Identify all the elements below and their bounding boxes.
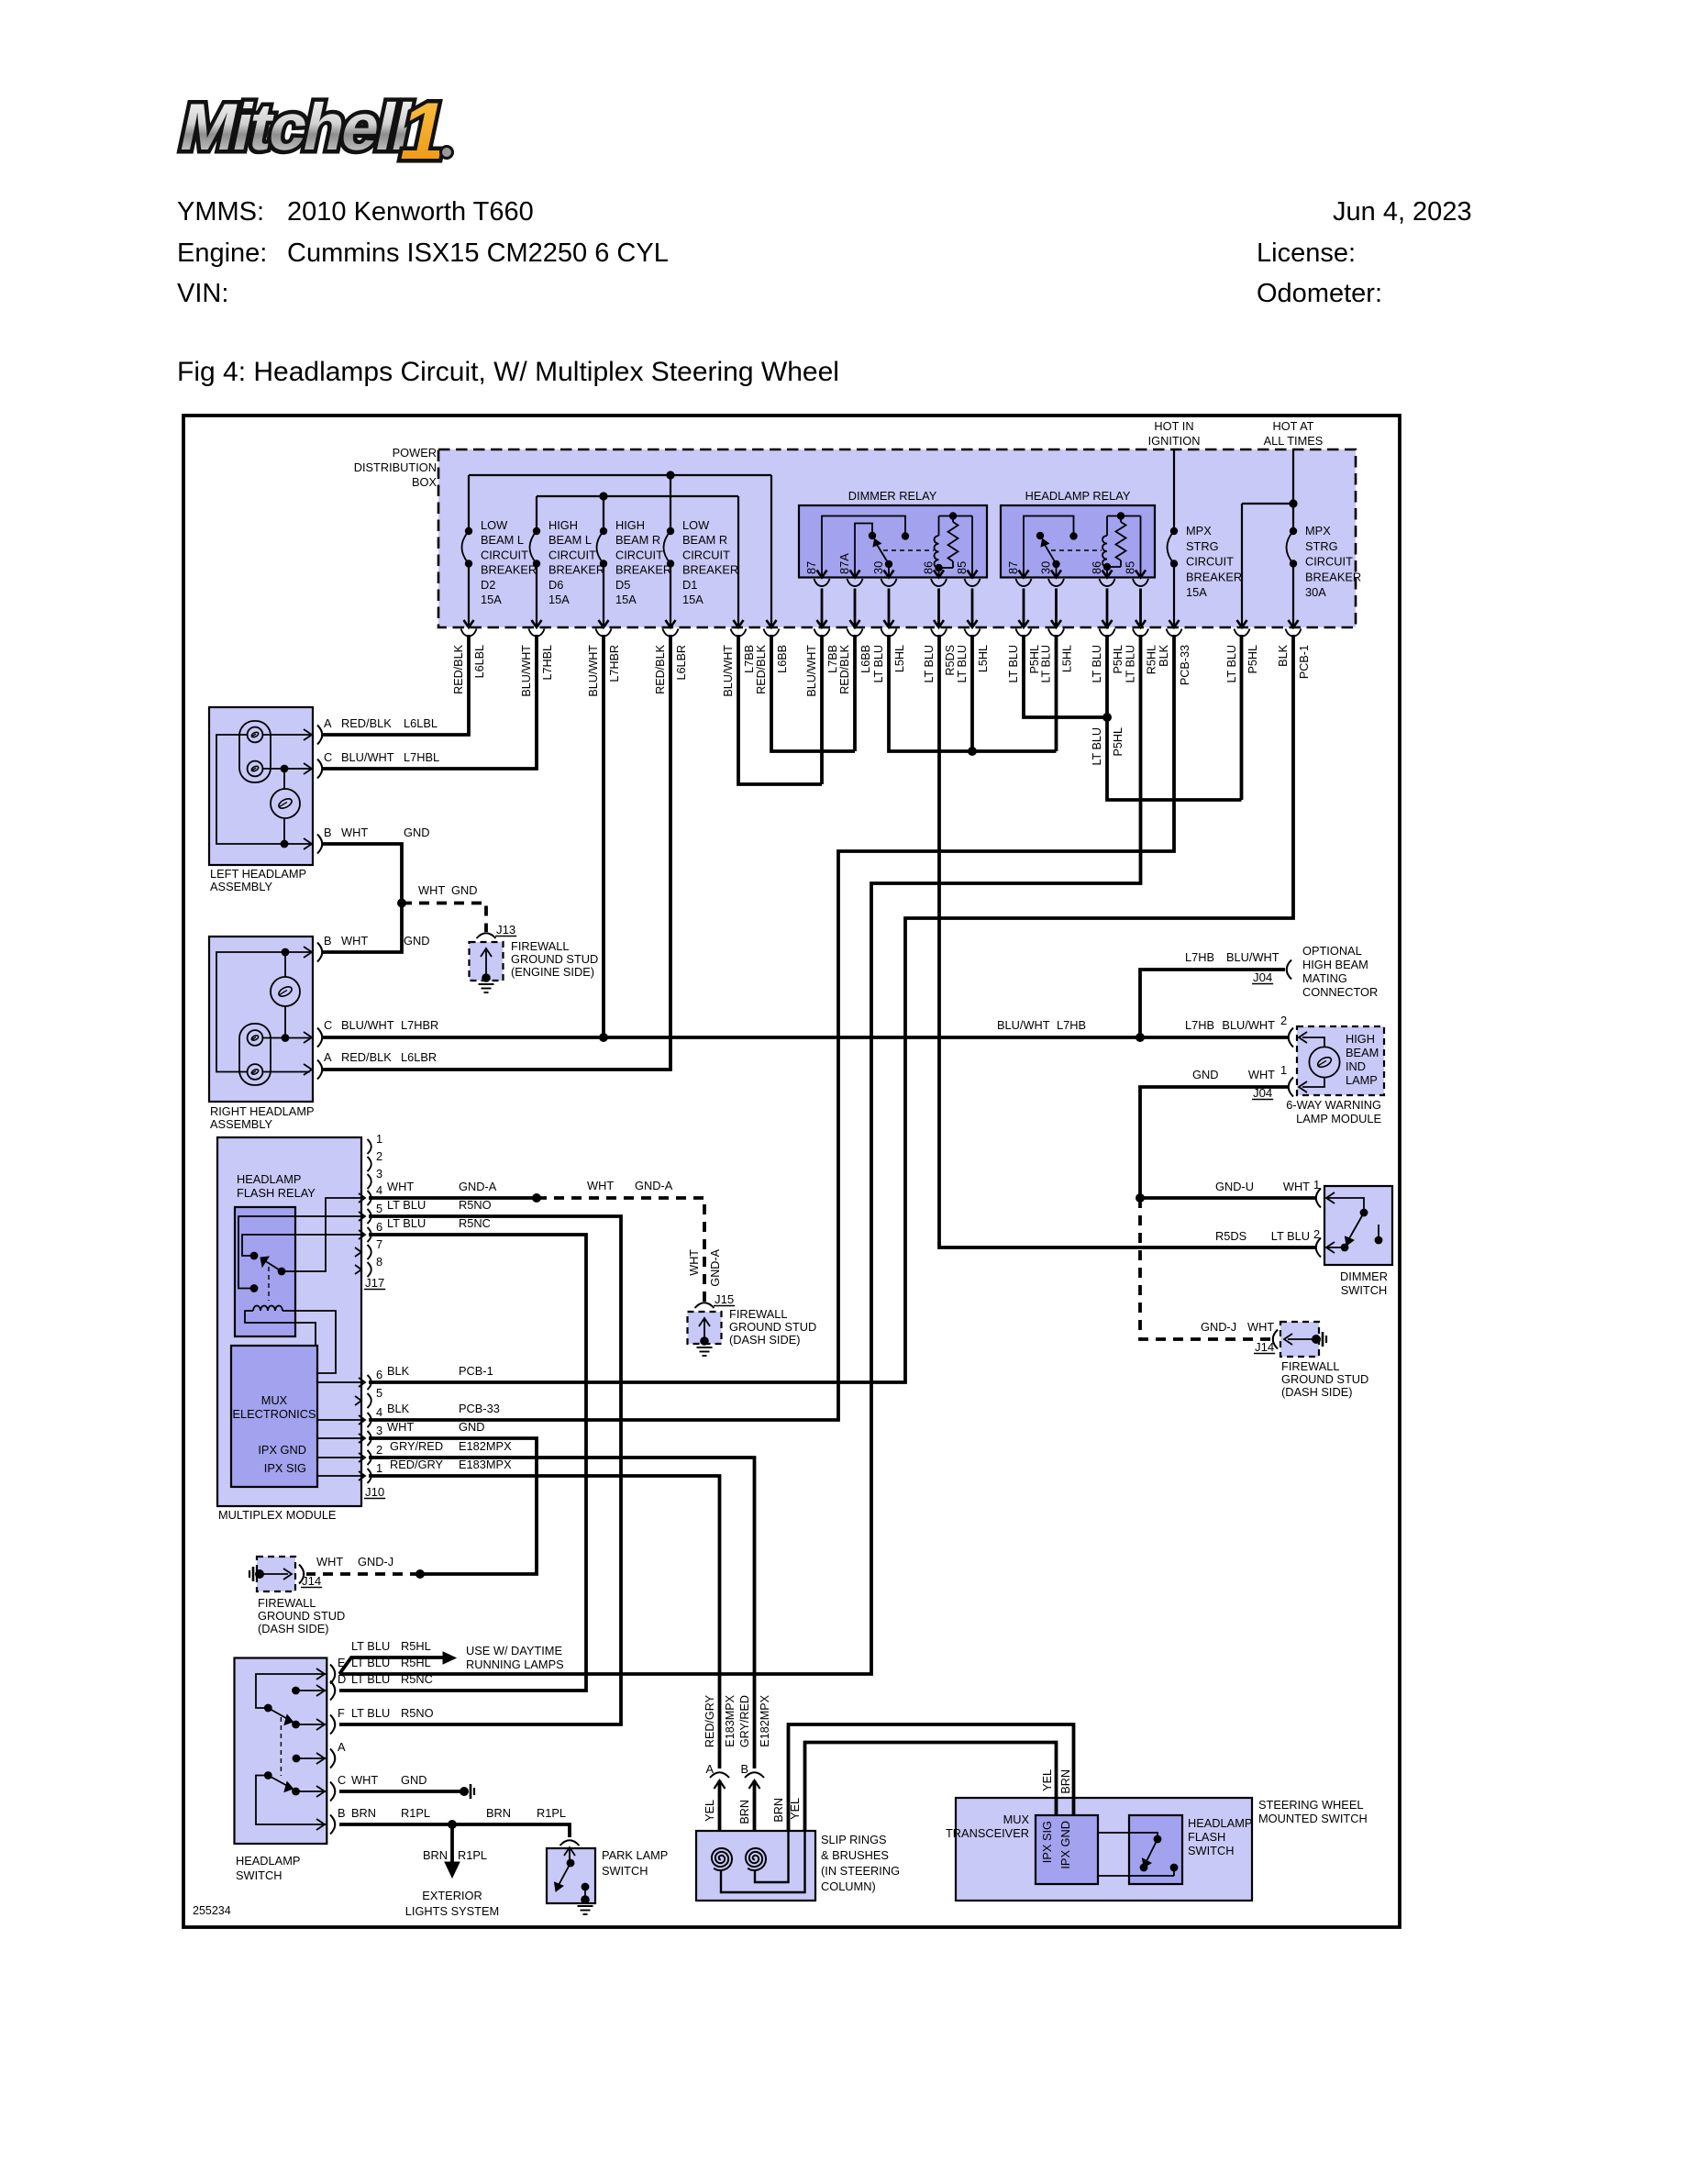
flash relay lever — [278, 1268, 286, 1276]
svg-text:TRANSCEIVER: TRANSCEIVER — [946, 1826, 1029, 1840]
svg-text:D: D — [338, 1672, 346, 1686]
svg-text:LT BLU: LT BLU — [872, 645, 885, 683]
svg-text:FIREWALL: FIREWALL — [729, 1307, 788, 1321]
wire WHT GND (headlamps B to J13) — [323, 844, 402, 952]
junction R1PL — [448, 1820, 457, 1829]
svg-text:GND: GND — [404, 826, 429, 839]
svg-text:LT BLU: LT BLU — [923, 645, 936, 683]
wire L7HB branch to optional connector J04 — [1140, 970, 1285, 1037]
svg-text:R5HL: R5HL — [401, 1639, 431, 1653]
svg-text:85: 85 — [1124, 561, 1137, 574]
svg-text:30: 30 — [1039, 561, 1053, 574]
svg-text:D2: D2 — [481, 578, 495, 592]
svg-text:87: 87 — [1006, 561, 1020, 574]
svg-text:R5NC: R5NC — [401, 1672, 433, 1686]
dashed GND-J to stud J14 — [306, 1572, 420, 1576]
headlamp switch F contact — [292, 1721, 300, 1729]
high beam ind lamp bulb — [1309, 1047, 1339, 1077]
svg-text:BLU/WHT: BLU/WHT — [1226, 950, 1280, 964]
svg-text:P5HL: P5HL — [1246, 645, 1259, 674]
svg-text:BRN: BRN — [738, 1800, 751, 1824]
dimmer relay — [799, 505, 987, 578]
wire GND-A (multiplex J17-4 to J15) — [369, 1196, 537, 1200]
svg-text:HIGH: HIGH — [1346, 1032, 1375, 1046]
transceiver to flash switch wiring — [1098, 1832, 1149, 1834]
left headlamp low beam bulb — [248, 727, 263, 743]
svg-text:R5NO: R5NO — [401, 1706, 434, 1720]
svg-text:WHT: WHT — [1283, 1180, 1310, 1193]
wire E182MPX (multiplex J10-2 to slip ring B) — [369, 1458, 755, 1768]
headlamp switch pin connectors — [316, 1668, 325, 1680]
svg-text:J13: J13 — [496, 923, 515, 937]
wire YEL (slip ring A to MUX transceiver IPX SIG) — [805, 1743, 1057, 1832]
headlamp flash switch internals — [1149, 1833, 1158, 1837]
svg-text:L5HL: L5HL — [977, 645, 990, 672]
svg-text:R1PL: R1PL — [537, 1806, 566, 1820]
svg-text:A: A — [324, 716, 332, 730]
slip ring coil B — [746, 1848, 766, 1870]
svg-text:BEAM R: BEAM R — [615, 533, 660, 547]
headlamp relay resistor — [1117, 512, 1125, 519]
svg-text:BEAM: BEAM — [1346, 1046, 1379, 1059]
svg-text:15A: 15A — [481, 593, 502, 606]
wire R5NC (multiplex J17-6 to headlamp switch D) — [339, 1235, 586, 1691]
svg-text:J17: J17 — [365, 1276, 384, 1290]
svg-text:VIN:: VIN: — [177, 279, 228, 308]
svg-text:L5HL: L5HL — [1061, 645, 1074, 672]
svg-text:BREAKER: BREAKER — [548, 563, 604, 577]
svg-text:1: 1 — [1280, 1063, 1287, 1077]
svg-text:HEADLAMP: HEADLAMP — [1188, 1816, 1252, 1830]
headlamp switch upper pivot — [264, 1704, 272, 1713]
svg-text:GROUND STUD: GROUND STUD — [258, 1609, 345, 1623]
svg-text:SWITCH: SWITCH — [602, 1864, 648, 1878]
svg-text:BLK: BLK — [1277, 644, 1290, 666]
svg-text:8: 8 — [376, 1255, 382, 1269]
MUX electronics box — [231, 1346, 317, 1487]
svg-text:BLK: BLK — [387, 1402, 410, 1415]
svg-text:LT BLU: LT BLU — [387, 1216, 426, 1230]
headlamp switch D contact — [292, 1687, 300, 1695]
svg-text:BRN: BRN — [772, 1798, 785, 1823]
svg-text:85: 85 — [955, 561, 969, 574]
svg-text:FIREWALL: FIREWALL — [1281, 1359, 1340, 1373]
svg-text:BLU/WHT: BLU/WHT — [805, 645, 818, 697]
svg-text:GRY/RED: GRY/RED — [390, 1439, 443, 1453]
svg-text:J04: J04 — [1253, 970, 1272, 984]
svg-text:WHT: WHT — [418, 883, 445, 897]
svg-text:RED/BLK: RED/BLK — [341, 1050, 392, 1064]
svg-text:WHT: WHT — [351, 1773, 378, 1787]
svg-text:GND-U: GND-U — [1215, 1180, 1254, 1193]
svg-text:LOW: LOW — [682, 518, 710, 532]
dimmer switch pin 2 connector — [1316, 1238, 1321, 1258]
svg-text:RUNNING LAMPS: RUNNING LAMPS — [466, 1657, 564, 1671]
svg-text:BLU/WHT: BLU/WHT — [587, 645, 600, 697]
svg-text:GND: GND — [1192, 1068, 1218, 1081]
steering wheel mounted switch — [956, 1798, 1252, 1901]
svg-text:BREAKER: BREAKER — [1305, 570, 1361, 583]
svg-text:MPX: MPX — [1186, 524, 1212, 538]
svg-text:License:: License: — [1257, 238, 1356, 268]
junction L7HB at ind lamp branch — [1136, 1033, 1145, 1042]
svg-text:C: C — [338, 1773, 346, 1787]
svg-text:BREAKER: BREAKER — [1186, 570, 1242, 583]
svg-text:ALL TIMES: ALL TIMES — [1264, 434, 1324, 448]
svg-text:BREAKER: BREAKER — [615, 563, 671, 577]
svg-text:Cummins ISX15 CM2250 6 CYL: Cummins ISX15 CM2250 6 CYL — [287, 238, 669, 268]
svg-text:SLIP RINGS: SLIP RINGS — [821, 1833, 887, 1846]
svg-text:GROUND STUD: GROUND STUD — [511, 952, 598, 966]
dimmer relay resistor — [949, 512, 957, 519]
right headlamp park bulb — [271, 977, 300, 1006]
svg-text:J14: J14 — [1255, 1340, 1274, 1354]
wire R5HL (headlamp relay 85 to headlamp switch E) — [339, 635, 1141, 1674]
svg-text:R1PL: R1PL — [401, 1806, 430, 1820]
diagram border frame — [183, 416, 1400, 1927]
svg-text:SWITCH: SWITCH — [1188, 1844, 1234, 1857]
svg-text:86: 86 — [1090, 561, 1103, 574]
left headlamp pin B connector — [304, 838, 312, 849]
svg-text:RED/BLK: RED/BLK — [755, 644, 768, 693]
svg-text:R5HL: R5HL — [1146, 645, 1158, 674]
svg-text:DIMMER: DIMMER — [1340, 1269, 1388, 1283]
svg-text:15A: 15A — [615, 593, 637, 606]
svg-text:HIGH: HIGH — [548, 518, 578, 532]
svg-text:GND: GND — [459, 1420, 484, 1434]
left headlamp pin A connector — [304, 729, 312, 740]
wire L6BB (bus1 to dimmer relay 87A) — [771, 635, 855, 751]
svg-text:B: B — [324, 826, 332, 839]
svg-text:(DASH SIDE): (DASH SIDE) — [1281, 1385, 1353, 1399]
svg-text:CONNECTOR: CONNECTOR — [1302, 985, 1378, 999]
svg-text:2: 2 — [376, 1443, 382, 1457]
circuit breaker D5 (high beam R, 15A) — [603, 496, 604, 531]
svg-text:MATING: MATING — [1302, 971, 1347, 985]
right headlamp internal wiring — [262, 1037, 310, 1039]
svg-text:B: B — [338, 1806, 346, 1820]
svg-text:BLU/WHT: BLU/WHT — [1222, 1018, 1275, 1032]
svg-text:& BRUSHES: & BRUSHES — [821, 1848, 889, 1862]
svg-text:(ENGINE SIDE): (ENGINE SIDE) — [511, 965, 594, 979]
dimmer switch lever — [1348, 1213, 1364, 1240]
headlamp switch C contact — [292, 1788, 300, 1796]
svg-text:L6BB: L6BB — [859, 645, 872, 673]
dimmer switch — [1324, 1186, 1392, 1265]
svg-text:BEAM R: BEAM R — [682, 533, 727, 547]
wire BRN into slip ring B — [753, 1780, 757, 1846]
svg-text:L7HB: L7HB — [1057, 1018, 1086, 1032]
flash relay pin6 wiring — [242, 1235, 363, 1256]
svg-text:WHT: WHT — [1248, 1068, 1275, 1081]
junction L5HL at dimmer 85 — [968, 747, 977, 756]
svg-text:4: 4 — [376, 1183, 382, 1197]
right headlamp low beam bulb — [248, 1064, 263, 1080]
svg-text:Odometer:: Odometer: — [1257, 279, 1382, 308]
svg-text:YEL: YEL — [789, 1798, 802, 1820]
svg-text:BLK: BLK — [387, 1364, 410, 1378]
wire GND (multiplex J10-3 to J14 dash side) — [369, 1438, 537, 1574]
headlamp relay coil — [1106, 516, 1108, 537]
firewall ground stud J13 (engine side) — [470, 942, 504, 981]
svg-text:WHT: WHT — [587, 1179, 614, 1192]
svg-text:GND-J: GND-J — [358, 1555, 393, 1569]
left headlamp pin C connector — [304, 763, 312, 774]
junction GND-U — [1136, 1193, 1145, 1203]
right headlamp pin A connector — [304, 1064, 312, 1075]
junction L7HB at L7HBR — [599, 1033, 608, 1042]
dimmer relay pin 85 internal — [971, 516, 973, 578]
flash relay pin5 wiring — [238, 1216, 363, 1289]
svg-text:HIGH BEAM: HIGH BEAM — [1302, 958, 1368, 971]
ind lamp pin 2 connector — [1289, 1028, 1293, 1048]
svg-text:IPX GND: IPX GND — [1058, 1821, 1072, 1869]
svg-text:R5DS: R5DS — [1215, 1229, 1246, 1243]
svg-text:FLASH RELAY: FLASH RELAY — [237, 1186, 316, 1200]
svg-text:L7HBL: L7HBL — [404, 750, 439, 764]
svg-text:2: 2 — [376, 1149, 382, 1163]
svg-text:LOW: LOW — [481, 518, 508, 532]
wire R5HL daytime running lamps branch — [339, 1657, 444, 1674]
svg-text:Engine:: Engine: — [177, 238, 267, 268]
svg-text:HOT IN: HOT IN — [1154, 419, 1193, 433]
wire PCB-33 (MPX 15A breaker to multiplex J10-4) — [369, 635, 1174, 1420]
headlamp switch gang dashed link — [280, 1717, 282, 1776]
svg-text:PCB-1: PCB-1 — [459, 1364, 493, 1378]
svg-text:L6LBR: L6LBR — [401, 1050, 437, 1064]
svg-text:BOX: BOX — [412, 475, 437, 489]
MUX transceiver box — [1036, 1815, 1098, 1884]
multiplex module — [217, 1137, 361, 1506]
svg-text:RIGHT HEADLAMP: RIGHT HEADLAMP — [210, 1104, 315, 1118]
dimmer switch right contact — [1375, 1236, 1383, 1245]
svg-text:IPX GND: IPX GND — [258, 1443, 306, 1457]
junction P5HL at headlamp 86 — [1102, 713, 1112, 722]
svg-text:L7HBR: L7HBR — [608, 645, 621, 682]
svg-text:HOT AT: HOT AT — [1272, 419, 1313, 433]
svg-text:WHT: WHT — [387, 1420, 414, 1434]
svg-text:15A: 15A — [548, 593, 570, 606]
svg-text:YEL: YEL — [704, 1800, 716, 1822]
svg-text:YEL: YEL — [1041, 1769, 1054, 1791]
slip ring coil A — [712, 1848, 732, 1870]
svg-text:E183MPX: E183MPX — [459, 1458, 512, 1471]
svg-text:POWER: POWER — [393, 446, 437, 460]
headlamp switch internal E wire — [256, 1674, 327, 1708]
dimmer relay pin 87 internal — [822, 516, 905, 578]
svg-text:YMMS:: YMMS: — [177, 197, 264, 227]
svg-text:ASSEMBLY: ASSEMBLY — [210, 880, 273, 893]
svg-text:DISTRIBUTION: DISTRIBUTION — [354, 460, 437, 474]
MUX electronics to J10 wiring — [317, 1381, 363, 1383]
svg-text:LT BLU: LT BLU — [1007, 645, 1020, 683]
svg-text:BLK: BLK — [1158, 644, 1170, 666]
svg-text:GROUND STUD: GROUND STUD — [1281, 1372, 1368, 1386]
dimmer switch pin 1 connector — [1316, 1189, 1321, 1208]
svg-text:L7HB: L7HB — [1185, 950, 1214, 964]
svg-text:COLUMN): COLUMN) — [821, 1879, 876, 1893]
svg-text:(IN STEERING: (IN STEERING — [821, 1864, 900, 1878]
svg-text:BLU/WHT: BLU/WHT — [722, 645, 735, 697]
svg-text:J10: J10 — [365, 1485, 384, 1499]
svg-text:30A: 30A — [1305, 585, 1326, 599]
wire E183MPX (multiplex J10-1 to slip ring A) — [369, 1476, 720, 1768]
svg-text:MPX: MPX — [1305, 524, 1331, 538]
svg-text:BEAM L: BEAM L — [548, 533, 592, 547]
svg-text:LT BLU: LT BLU — [1271, 1229, 1310, 1243]
svg-text:BRN: BRN — [1059, 1769, 1072, 1794]
svg-text:P5HL: P5HL — [1112, 727, 1125, 757]
svg-text:BRN: BRN — [423, 1848, 448, 1862]
svg-text:RED/BLK: RED/BLK — [654, 644, 667, 693]
svg-text:E182MPX: E182MPX — [459, 1439, 512, 1453]
headlamp relay — [1001, 505, 1155, 578]
svg-text:(DASH SIDE): (DASH SIDE) — [729, 1333, 801, 1347]
wire BRN (slip ring B to MUX transceiver IPX GND) — [789, 1724, 1074, 1831]
wire P5HL (headlamp relay 87/86 to PDB 30A branch) — [1024, 635, 1242, 800]
svg-text:R5NC: R5NC — [459, 1216, 491, 1230]
left headlamp internal wiring — [262, 734, 310, 736]
svg-text:MUX: MUX — [1003, 1813, 1030, 1826]
left headlamp high beam bulb — [248, 761, 263, 777]
wire R1PL (headlamp switch B to park lamp switch) — [339, 1824, 570, 1837]
svg-text:B: B — [740, 1762, 748, 1776]
svg-text:LAMP MODULE: LAMP MODULE — [1296, 1112, 1381, 1125]
svg-text:A: A — [705, 1762, 714, 1776]
svg-text:6: 6 — [376, 1220, 382, 1234]
svg-text:DIMMER RELAY: DIMMER RELAY — [848, 489, 937, 503]
svg-text:GND-A: GND-A — [459, 1180, 497, 1193]
svg-text:RED/GRY: RED/GRY — [390, 1458, 444, 1471]
svg-text:1: 1 — [376, 1461, 382, 1475]
svg-text:CIRCUIT: CIRCUIT — [1305, 555, 1353, 569]
svg-text:BREAKER: BREAKER — [682, 563, 738, 577]
slip ring connector B — [745, 1772, 764, 1778]
svg-text:BRN: BRN — [486, 1806, 511, 1820]
svg-text:LT BLU: LT BLU — [1091, 727, 1103, 766]
svg-text:GND-J: GND-J — [1201, 1320, 1236, 1334]
svg-text:SWITCH: SWITCH — [236, 1868, 282, 1882]
svg-text:EXTERIOR: EXTERIOR — [422, 1889, 482, 1902]
svg-text:LT BLU: LT BLU — [1040, 645, 1053, 683]
slip rings and brushes box — [696, 1831, 815, 1901]
wire L7BB (bus2 to dimmer relay 87) — [738, 635, 822, 784]
svg-text:PCB-33: PCB-33 — [1179, 645, 1191, 685]
svg-text:GROUND STUD: GROUND STUD — [729, 1320, 816, 1334]
svg-text:C: C — [324, 1018, 332, 1032]
svg-text:HIGH: HIGH — [615, 518, 645, 532]
svg-text:LAMP: LAMP — [1346, 1073, 1378, 1087]
ind lamp pin 1 connector — [1289, 1078, 1293, 1097]
svg-text:L6LBR: L6LBR — [675, 645, 688, 681]
svg-text:BLU/WHT: BLU/WHT — [341, 750, 394, 764]
svg-text:L6LBL: L6LBL — [404, 716, 438, 730]
svg-text:IGNITION: IGNITION — [1148, 434, 1201, 448]
svg-text:GND: GND — [401, 1773, 427, 1787]
headlamp relay switch lever — [1052, 560, 1059, 568]
svg-text:STEERING WHEEL: STEERING WHEEL — [1258, 1798, 1363, 1812]
firewall ground stud J14 (dash side, at multiplex) — [257, 1557, 295, 1591]
svg-text:Mitchell: Mitchell — [174, 91, 417, 164]
junction hot-at-all-times / P5HL branch — [1289, 499, 1297, 507]
svg-text:L7HBR: L7HBR — [401, 1018, 438, 1032]
slip ring connector A — [710, 1772, 729, 1778]
circuit breaker MPX STRG 15A — [1170, 527, 1178, 535]
svg-text:PCB-33: PCB-33 — [459, 1402, 500, 1415]
svg-text:WHT: WHT — [387, 1180, 414, 1193]
wire L7HBL (PDB D6 to left headlamp C) — [323, 635, 537, 769]
svg-text:J04: J04 — [1253, 1086, 1272, 1100]
headlamp relay pin 85 internal — [1140, 516, 1142, 578]
svg-text:30: 30 — [871, 561, 885, 574]
headlamp relay contact — [1036, 532, 1044, 539]
svg-text:RED/GRY: RED/GRY — [704, 1694, 716, 1747]
svg-text:87: 87 — [804, 561, 818, 574]
headlamp switch lower pivot — [264, 1771, 272, 1779]
flash relay coil — [253, 1306, 283, 1312]
svg-text:R5NO: R5NO — [459, 1198, 492, 1212]
firewall ground stud J15 (dash side) — [688, 1312, 722, 1344]
junction GND-J — [415, 1569, 425, 1579]
svg-text:86: 86 — [922, 561, 936, 574]
svg-text:GND: GND — [404, 934, 429, 948]
junction bus2-D5 — [599, 492, 607, 500]
svg-text:ASSEMBLY: ASSEMBLY — [210, 1117, 273, 1131]
6-way warning lamp module (high beam ind lamp) — [1297, 1026, 1384, 1095]
right headlamp high beam bulb — [248, 1030, 263, 1046]
firewall ground stud J14 (right, dash side) — [1273, 1330, 1278, 1349]
bus bar 2 — [537, 495, 738, 497]
wire YEL into slip ring A — [718, 1780, 722, 1846]
svg-text:L6BB: L6BB — [776, 645, 789, 673]
svg-text:LT BLU: LT BLU — [1225, 645, 1238, 683]
svg-text:LEFT HEADLAMP: LEFT HEADLAMP — [210, 867, 306, 881]
svg-text:5: 5 — [376, 1386, 382, 1400]
svg-text:2010 Kenworth T660: 2010 Kenworth T660 — [287, 197, 534, 227]
svg-text:6-WAY WARNING: 6-WAY WARNING — [1286, 1098, 1381, 1112]
svg-text:L7BB: L7BB — [826, 645, 839, 673]
circuit breaker MPX STRG 30A — [1290, 527, 1297, 535]
svg-text:R5DS: R5DS — [944, 645, 957, 676]
svg-text:USE W/ DAYTIME: USE W/ DAYTIME — [466, 1644, 562, 1657]
svg-text:B: B — [324, 934, 332, 948]
svg-text:L7HBL: L7HBL — [541, 645, 554, 681]
svg-text:2: 2 — [1280, 1014, 1287, 1027]
svg-text:LT BLU: LT BLU — [1125, 645, 1137, 683]
svg-text:E183MPX: E183MPX — [724, 1694, 737, 1746]
svg-text:R1PL: R1PL — [458, 1848, 487, 1862]
svg-text:STRG: STRG — [1186, 539, 1219, 553]
svg-text:BEAM L: BEAM L — [481, 533, 524, 547]
wire GND right side (ind lamp pin1 to dimmer switch / J14) — [1140, 1087, 1288, 1198]
svg-text:WHT: WHT — [341, 826, 368, 839]
wire L7BB drop from bus2 — [737, 496, 739, 627]
svg-text:WHT: WHT — [316, 1555, 343, 1569]
connector J10 — [368, 1375, 371, 1390]
headlamp flash switch box — [1129, 1815, 1182, 1884]
svg-text:WHT: WHT — [341, 934, 368, 948]
wire GND-U to dimmer switch pin 1 — [1140, 1196, 1315, 1200]
left headlamp assembly — [209, 707, 313, 865]
svg-text:PCB-1: PCB-1 — [1298, 645, 1311, 679]
flash relay coil wiring — [245, 1311, 316, 1346]
power distribution box — [438, 449, 1356, 627]
svg-text:L7BB: L7BB — [743, 645, 756, 673]
svg-text:CIRCUIT: CIRCUIT — [615, 548, 663, 561]
svg-text:BLU/WHT: BLU/WHT — [520, 645, 533, 697]
svg-text:GND-A: GND-A — [709, 1248, 722, 1286]
svg-text:GRY/RED: GRY/RED — [738, 1695, 751, 1747]
